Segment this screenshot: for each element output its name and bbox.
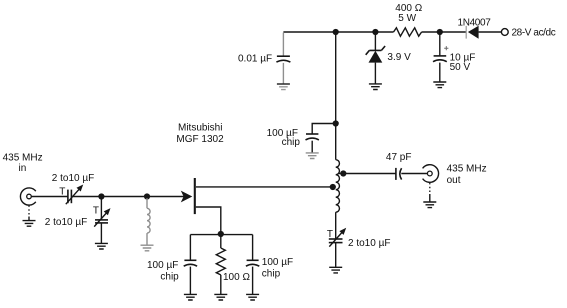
- capacitor C8 100 uF chip left: [189, 235, 191, 261]
- capacitor C4 47 pF: [395, 168, 397, 180]
- trimmer capacitor C7 2-10 uF shunt: [100, 197, 102, 220]
- svg-text:100 Ω: 100 Ω: [223, 272, 250, 283]
- wire: coil bottom to trimmer: [335, 212, 337, 239]
- wire: drain to coil: [196, 186, 333, 188]
- svg-text:2 to10 µF: 2 to10 µF: [45, 217, 87, 228]
- svg-text:chip: chip: [282, 137, 301, 148]
- svg-text:Mitsubishi: Mitsubishi: [178, 123, 222, 134]
- ground for C8: [184, 294, 197, 300]
- svg-text:in: in: [19, 163, 27, 174]
- svg-text:2 to10 µF: 2 to10 µF: [348, 238, 390, 249]
- svg-text:chip: chip: [262, 268, 281, 279]
- wire: source network rail: [190, 234, 252, 236]
- ground for C3: [306, 153, 319, 159]
- wire: J2 shield to ground (dotted): [429, 183, 431, 194]
- wire: source lead: [196, 207, 221, 234]
- connector J2 435 MHz out: [423, 165, 439, 183]
- capacitor C9 100 uF chip right: [252, 235, 254, 261]
- svg-text:435 MHz: 435 MHz: [447, 164, 487, 175]
- ground for L1: [141, 245, 154, 251]
- svg-text:5 W: 5 W: [398, 13, 416, 24]
- zener diode D2 3.9 V: [374, 32, 376, 50]
- diode D1 1N4007: [468, 26, 479, 39]
- node: gate inductor junction: [144, 193, 150, 199]
- resistor R1 400 ohm 5 W: [394, 28, 422, 36]
- node: coil tap to output: [338, 173, 343, 175]
- terminal: 28-V input: [501, 29, 508, 36]
- node: shunt trimmer junction: [98, 193, 104, 199]
- node: filter cap junction: [437, 29, 443, 35]
- ground for R2: [214, 294, 227, 300]
- ground for J2: [423, 202, 436, 208]
- transistor Q1 MGF 1302 channel bar: [194, 178, 196, 214]
- wire: J1 to trimmer C6: [31, 196, 68, 198]
- node: 100 uF chip branch: [333, 120, 339, 126]
- svg-text:47 pF: 47 pF: [386, 152, 412, 163]
- ground for C2: [277, 83, 290, 85]
- capacitor C3 100 uF chip: [312, 124, 336, 134]
- svg-text:chip: chip: [160, 272, 179, 283]
- wire: main vertical feed: [335, 32, 337, 160]
- node: rail junction with main vertical: [333, 29, 339, 35]
- svg-text:3.9 V: 3.9 V: [387, 52, 411, 63]
- resistor R2 100 ohm: [220, 234, 222, 248]
- trimmer capacitor C5 2-10 uF output: [329, 238, 343, 240]
- transistor Q1 gate arrow: [181, 191, 193, 203]
- svg-text:MGF 1302: MGF 1302: [176, 134, 224, 145]
- svg-text:1N4007: 1N4007: [458, 18, 492, 29]
- svg-text:50 V: 50 V: [450, 62, 471, 73]
- svg-text:out: out: [447, 175, 461, 186]
- svg-text:28-V ac/dc: 28-V ac/dc: [512, 28, 556, 39]
- trimmer capacitor C6 2-10 uF series input: [67, 190, 69, 204]
- ground for C7: [95, 243, 108, 249]
- svg-text:T: T: [59, 186, 65, 197]
- wire: J1 shield to ground (dotted): [28, 205, 30, 216]
- ground for zener: [369, 84, 382, 90]
- svg-text:100 µF: 100 µF: [147, 260, 178, 271]
- ground for C1: [433, 82, 446, 88]
- svg-text:100 µF: 100 µF: [262, 257, 293, 268]
- svg-text:435 MHz: 435 MHz: [3, 152, 43, 163]
- node: zener junction: [372, 29, 378, 35]
- ground for C5: [329, 267, 342, 273]
- ground for C9: [246, 294, 259, 300]
- wire: top supply rail: [283, 31, 501, 33]
- node: source network junction: [218, 231, 224, 237]
- wire: trimmer C6 to gate: [71, 196, 185, 198]
- svg-text:T: T: [327, 229, 333, 240]
- node: drain tap on coil: [330, 184, 336, 190]
- capacitor C2 0.01 uF bypass: [282, 33, 284, 56]
- connector J1 435 MHz in: [20, 188, 35, 205]
- svg-text:0.01 µF: 0.01 µF: [238, 53, 272, 64]
- ground for J1: [23, 221, 36, 227]
- capacitor C1 10 uF 50 V electrolytic: [439, 32, 441, 56]
- wire: tap to 47 pF: [343, 173, 396, 175]
- svg-text:T: T: [93, 206, 99, 217]
- inductor L2 output coil: [336, 160, 340, 213]
- svg-text:2 to10 µF: 2 to10 µF: [52, 173, 94, 184]
- inductor L1 gate choke: [146, 198, 148, 208]
